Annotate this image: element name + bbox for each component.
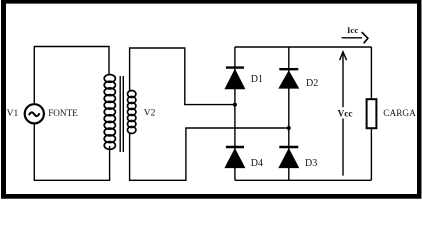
wire: bridge right branch [288,47,290,180]
node B junction dot [287,126,291,130]
svg-text:D2: D2 [306,78,318,89]
svg-text:D1: D1 [251,74,263,85]
diode D3 [278,147,299,168]
wire: bridge top rail [235,46,372,48]
svg-text:D4: D4 [251,158,263,169]
svg-text:V2: V2 [144,109,156,119]
wire: bridge left branch [234,47,236,180]
svg-text:Icc: Icc [347,25,358,35]
wire: load branch right side [370,47,372,180]
svg-text:D3: D3 [305,158,317,169]
node A junction dot [233,103,237,107]
svg-text:Vcc: Vcc [338,109,353,119]
diode D1 [224,68,245,90]
load CARGA box [367,99,377,128]
wire: bridge bottom rail [235,179,372,181]
diode D4 [224,147,245,168]
transformer primary winding [104,75,115,150]
wire: secondary top to bridge left node [130,48,235,105]
wire: left loop bottom [34,124,109,181]
svg-text:V1: V1 [7,109,19,119]
svg-text:FONTE: FONTE [48,108,78,118]
svg-text:CARGA: CARGA [383,109,416,119]
diode D2 [278,69,299,88]
Icc arrow [342,32,368,43]
Vcc arrow [340,52,347,176]
transformer secondary winding [128,91,136,134]
wire: left loop top (source to primary) [34,47,109,105]
source V1 [25,104,44,123]
wire: secondary bottom to bridge right node [130,128,289,180]
Vcc label background [336,107,353,118]
transformer core [120,76,123,152]
